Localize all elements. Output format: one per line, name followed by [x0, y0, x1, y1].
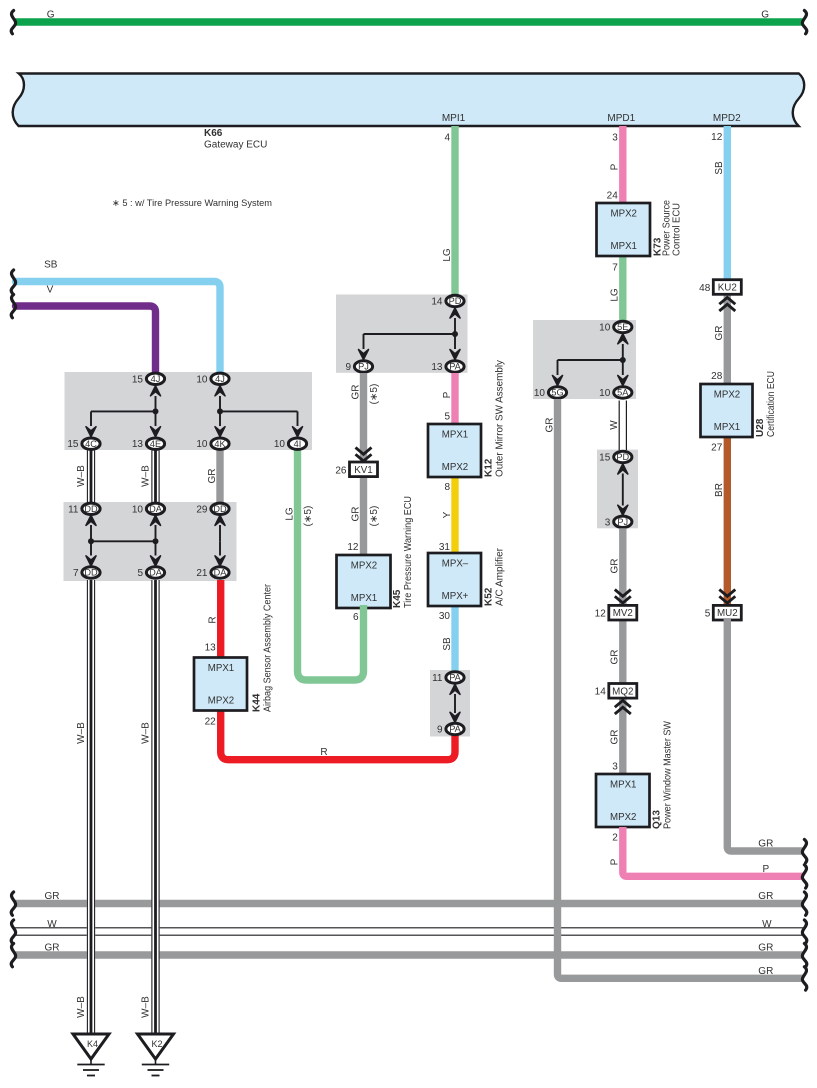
- arrow down to 5G: [553, 360, 563, 386]
- connector 15 4C: [67, 438, 100, 450]
- break symbol GR1 left: [11, 892, 15, 915]
- label GR MV2 wire: [610, 559, 621, 574]
- svg-text:GR: GR: [610, 559, 621, 574]
- svg-text:Y: Y: [442, 511, 453, 518]
- svg-text:MPX2: MPX2: [610, 812, 636, 823]
- wire SB MPD2: [724, 126, 731, 285]
- pin 5 K12: [444, 412, 450, 423]
- svg-text:MPI1: MPI1: [442, 113, 466, 124]
- svg-text:4J: 4J: [215, 374, 225, 384]
- svg-text:PJ: PJ: [358, 362, 369, 372]
- pin 28 U28: [711, 371, 723, 382]
- wire LG K73 to 5E: [619, 250, 626, 321]
- svg-text:DA: DA: [149, 568, 163, 578]
- label Y wire: [442, 511, 453, 518]
- svg-text:MPX2: MPX2: [611, 209, 637, 220]
- label GR KU2 wire: [714, 326, 725, 341]
- wire LG MPI1: [451, 126, 458, 295]
- pin 27 U28: [711, 443, 723, 454]
- arrow down to 4I: [293, 411, 303, 436]
- footnote *5: [112, 198, 272, 209]
- connector 13 4E: [132, 438, 165, 450]
- wire GR horizontal 2: [14, 951, 804, 958]
- connector 7 DD: [73, 567, 100, 579]
- label GR MQ2 wire: [610, 650, 621, 665]
- label G right: [761, 10, 769, 21]
- label SB MPD2 wire: [714, 161, 725, 175]
- connector 14 PD: [431, 295, 464, 307]
- wire W-B 5DA to ground K2: [151, 580, 159, 1034]
- shaded connector area DD/DA: [64, 502, 237, 581]
- svg-text:4I: 4I: [294, 439, 302, 449]
- arrow down to 21 DA: [215, 541, 225, 566]
- pin 4 MPI1: [444, 133, 450, 144]
- svg-text:R: R: [320, 747, 327, 758]
- svg-text:KU2: KU2: [718, 283, 737, 294]
- svg-text:14: 14: [431, 297, 443, 308]
- svg-text:GR: GR: [758, 839, 773, 850]
- label GR Q13 wire: [610, 730, 621, 745]
- svg-text:G: G: [761, 10, 769, 21]
- pin 13 K44: [205, 643, 217, 654]
- svg-text:13: 13: [431, 362, 443, 373]
- svg-text:3: 3: [612, 133, 618, 144]
- svg-text:12: 12: [595, 609, 607, 620]
- label P right: [762, 864, 769, 875]
- break symbol GR2 right: [802, 944, 806, 967]
- svg-text:MPX1: MPX1: [611, 241, 637, 252]
- label W-B 4E wire: [140, 465, 151, 487]
- label GR 4K wire: [207, 469, 218, 484]
- wire V left: [16, 306, 156, 373]
- shaded connector area PD/PJ/PA: [336, 295, 468, 373]
- label SB K52 wire: [442, 637, 453, 651]
- svg-text:GR: GR: [350, 385, 361, 400]
- label GR2 right: [758, 943, 773, 954]
- svg-text:MPX1: MPX1: [714, 422, 740, 433]
- svg-text:13: 13: [205, 643, 217, 654]
- svg-text:GR: GR: [45, 891, 60, 902]
- svg-text:G: G: [47, 10, 55, 21]
- connector 15 PD right: [599, 451, 632, 463]
- chevron below KU2: [719, 298, 735, 312]
- wire link 4J to 4I: [220, 410, 298, 412]
- svg-text:Airbag Sensor Assembly Center: Airbag Sensor Assembly Center: [263, 583, 274, 712]
- ground K4: [73, 1034, 109, 1076]
- arrow up to 10 4J: [215, 386, 225, 412]
- svg-text:K45: K45: [392, 589, 403, 608]
- pin 3 MPD1: [612, 133, 618, 144]
- chevron above MV2: [615, 590, 631, 604]
- svg-text:26: 26: [335, 465, 347, 476]
- svg-text:V: V: [47, 285, 54, 296]
- SW Q13: [596, 720, 674, 829]
- svg-text:5G: 5G: [551, 388, 563, 398]
- label R horizontal wire: [320, 747, 327, 758]
- svg-text:5: 5: [705, 609, 711, 620]
- wire GR 4K to DD: [216, 450, 223, 503]
- svg-text:MPD1: MPD1: [607, 113, 635, 124]
- svg-text:7: 7: [612, 263, 618, 274]
- node junction DD: [88, 538, 94, 544]
- svg-text:GR: GR: [207, 469, 218, 484]
- wire G bus: [14, 18, 804, 25]
- svg-text:(∗5): (∗5): [369, 506, 380, 527]
- wire LG 4I to K45: [298, 450, 364, 680]
- break symbol right G: [802, 11, 806, 34]
- wire W horizontal: [14, 927, 804, 936]
- svg-text:15: 15: [132, 374, 144, 385]
- svg-text:DA: DA: [149, 504, 163, 514]
- label P Q13 wire: [610, 858, 621, 865]
- svg-text:GR: GR: [610, 650, 621, 665]
- svg-text:PD: PD: [449, 296, 462, 306]
- svg-text:W–B: W–B: [76, 722, 87, 744]
- connector 10 5G: [534, 387, 567, 399]
- label GR PJ wire: [350, 385, 361, 400]
- pin 22 K44: [205, 717, 217, 728]
- svg-text:R: R: [208, 616, 219, 623]
- pin 8 K12: [444, 482, 450, 493]
- wire Y K12 to K52: [451, 474, 458, 556]
- arrow up to PD: [450, 308, 460, 334]
- pin 3 Q13: [612, 762, 618, 773]
- break symbol V: [11, 295, 15, 318]
- label GR 5G wire: [544, 418, 555, 433]
- connector KV1: [350, 462, 378, 477]
- svg-text:GR: GR: [758, 891, 773, 902]
- svg-text:MPX2: MPX2: [442, 462, 468, 473]
- label G left: [47, 10, 55, 21]
- svg-text:7: 7: [73, 568, 79, 579]
- svg-text:W: W: [762, 919, 772, 930]
- svg-text:31: 31: [439, 542, 451, 553]
- svg-text:PD: PD: [616, 452, 629, 462]
- node junction 5E: [620, 357, 626, 363]
- svg-text:K44: K44: [252, 693, 263, 712]
- svg-text:MPX+: MPX+: [442, 591, 469, 602]
- shaded connector area 5E/5G/5A: [533, 320, 636, 399]
- arrow up to 11 DD: [86, 515, 96, 541]
- wire link PA to PA: [454, 694, 456, 713]
- arrow down to 7 DD: [86, 541, 96, 566]
- svg-text:5: 5: [444, 412, 450, 423]
- amplifier K52: [428, 547, 506, 606]
- svg-text:GR: GR: [714, 326, 725, 341]
- svg-text:P: P: [610, 163, 621, 170]
- svg-text:28: 28: [711, 371, 723, 382]
- svg-text:MPX2: MPX2: [208, 696, 234, 707]
- connector 10 DA: [132, 503, 165, 515]
- pin 12 MV2: [595, 609, 607, 620]
- break symbol left G: [11, 11, 15, 34]
- arrow up to 11 PA: [450, 684, 460, 694]
- connector 10 5A: [599, 387, 632, 399]
- svg-text:P: P: [610, 858, 621, 865]
- svg-text:10: 10: [274, 439, 286, 450]
- label P PA wire: [442, 391, 453, 398]
- svg-text:4: 4: [444, 133, 450, 144]
- svg-text:K52: K52: [484, 587, 495, 606]
- label (*5) KV1 wire: [369, 506, 380, 527]
- svg-text:MV2: MV2: [613, 608, 633, 619]
- svg-text:(∗5): (∗5): [303, 506, 314, 527]
- connector 11 DD: [68, 503, 100, 515]
- pin 12 K45: [347, 542, 359, 553]
- svg-text:LG: LG: [442, 248, 453, 262]
- svg-text:Control ECU: Control ECU: [672, 203, 683, 256]
- label BR wire: [714, 483, 725, 497]
- label LG 4I wire: [284, 507, 295, 521]
- svg-text:GR: GR: [758, 966, 773, 977]
- connector 10 4I: [274, 438, 307, 450]
- wire link 4J to 4C: [91, 410, 156, 412]
- ECU U28: [701, 371, 778, 437]
- label SB: [44, 260, 58, 271]
- arrow up to 15 4J: [151, 386, 161, 412]
- arrow down to 3 PJ: [618, 505, 628, 515]
- svg-text:10: 10: [534, 388, 546, 399]
- connector KU2: [713, 280, 741, 295]
- svg-text:11: 11: [68, 504, 79, 515]
- pin 48 KU2: [699, 283, 711, 294]
- label GR1 right: [758, 891, 773, 902]
- svg-text:4J: 4J: [151, 374, 161, 384]
- break symbol GR2 left: [11, 944, 15, 967]
- wire link 5E to 5G: [558, 359, 623, 361]
- svg-text:4K: 4K: [214, 439, 226, 449]
- break symbol W left: [11, 920, 15, 943]
- svg-text:K66: K66: [204, 128, 223, 139]
- svg-text:DD: DD: [84, 568, 98, 578]
- svg-text:5: 5: [137, 568, 143, 579]
- svg-text:15: 15: [67, 439, 79, 450]
- svg-text:2: 2: [612, 833, 618, 844]
- ECU K44: [194, 583, 274, 712]
- svg-text:DD: DD: [213, 504, 227, 514]
- svg-text:Power Window Master SW: Power Window Master SW: [663, 720, 674, 829]
- svg-text:14: 14: [595, 687, 607, 698]
- pin 24 K73: [607, 191, 619, 202]
- ground K2: [138, 1034, 174, 1076]
- connector 10 4K: [196, 438, 229, 450]
- break symbol SB: [11, 270, 15, 293]
- wire link PD to PJ: [364, 333, 456, 335]
- wire P Q13 to right: [623, 827, 804, 876]
- svg-text:3: 3: [605, 517, 611, 528]
- svg-text:5E: 5E: [617, 322, 628, 332]
- arrow down to 9 PA: [450, 712, 460, 722]
- wire W-B 7DD to ground K4: [87, 580, 95, 1034]
- wire BR U28 to MU2: [724, 436, 731, 607]
- pin 26 KV1: [335, 465, 347, 476]
- arrow up to 5E: [618, 334, 628, 360]
- arrow up to 15 PD: [618, 464, 628, 474]
- svg-text:8: 8: [444, 482, 450, 493]
- wire W-B 4E to DA: [151, 451, 159, 504]
- svg-text:3: 3: [612, 762, 618, 773]
- svg-text:MPX2: MPX2: [351, 561, 377, 572]
- connector MV2: [609, 605, 637, 620]
- svg-text:W–B: W–B: [140, 465, 151, 487]
- connector 10 5E: [599, 321, 632, 333]
- svg-text:U28: U28: [755, 418, 766, 437]
- wire link PD PJ right: [622, 474, 624, 506]
- arrow down to 5A: [618, 360, 628, 386]
- arrow down to PA: [450, 334, 460, 360]
- arrow down to 4E: [151, 411, 161, 436]
- svg-text:A/C Amplifier: A/C Amplifier: [495, 547, 506, 606]
- svg-text:5A: 5A: [617, 388, 629, 398]
- svg-text:MQ2: MQ2: [612, 686, 633, 697]
- svg-text:10: 10: [196, 439, 208, 450]
- svg-text:27: 27: [711, 443, 723, 454]
- pin 31 K52: [439, 542, 451, 553]
- pin 5 MU2: [705, 609, 711, 620]
- svg-text:10: 10: [196, 374, 208, 385]
- wire GR MU2 to right: [727, 619, 804, 851]
- ECU K45: [337, 496, 415, 608]
- svg-text:Tire Pressure Warning ECU: Tire Pressure Warning ECU: [403, 496, 414, 608]
- svg-text:10: 10: [132, 504, 144, 515]
- arrow down to PJ: [359, 334, 369, 360]
- svg-text:MPX–: MPX–: [442, 559, 469, 570]
- svg-text:W–B: W–B: [140, 996, 151, 1018]
- label GR2 left: [45, 943, 60, 954]
- wire GR PJ to Q13: [619, 528, 626, 774]
- svg-text:12: 12: [711, 132, 723, 143]
- svg-text:DA: DA: [214, 568, 228, 578]
- svg-text:24: 24: [607, 191, 619, 202]
- pin 12 MPD2: [711, 132, 723, 143]
- connector 29 DD: [196, 503, 229, 515]
- svg-text:W–B: W–B: [76, 465, 87, 487]
- svg-text:Certification ECU: Certification ECU: [766, 371, 777, 437]
- connector MQ2: [609, 684, 637, 699]
- svg-text:29: 29: [196, 504, 208, 515]
- label GR MU2 right: [758, 839, 773, 850]
- wire SB left: [16, 282, 221, 373]
- svg-text:MPX2: MPX2: [714, 390, 740, 401]
- chevron below MQ2: [615, 701, 631, 715]
- label LG K73 wire: [610, 288, 621, 302]
- wire W-B 4C to DD: [87, 451, 95, 504]
- label R K44 wire: [208, 616, 219, 623]
- label (*5) 4I wire: [303, 506, 314, 527]
- break symbol GR MU2 right: [802, 840, 806, 863]
- svg-text:Gateway ECU: Gateway ECU: [204, 140, 267, 151]
- svg-text:SB: SB: [44, 260, 58, 271]
- svg-text:PA: PA: [449, 362, 461, 372]
- svg-text:10: 10: [599, 388, 611, 399]
- shaded connector area PA/PA: [430, 670, 470, 737]
- svg-text:MPD2: MPD2: [713, 113, 741, 124]
- svg-text:P: P: [442, 391, 453, 398]
- svg-text:11: 11: [432, 673, 443, 684]
- break symbol GR bottom right: [802, 967, 806, 990]
- svg-text:PJ: PJ: [617, 517, 628, 527]
- wire P MPD1: [619, 126, 626, 208]
- svg-text:GR: GR: [544, 418, 555, 433]
- svg-text:DD: DD: [84, 504, 98, 514]
- label (*5) PJ wire: [369, 384, 380, 405]
- label W-B K4 wire: [76, 722, 87, 744]
- arrow up to 10 DA: [151, 515, 161, 541]
- label W-B K2 wire: [140, 722, 151, 744]
- svg-text:15: 15: [599, 453, 611, 464]
- svg-text:30: 30: [439, 611, 451, 622]
- wire link DD to DA: [91, 540, 156, 542]
- label P MPD1 wire: [610, 163, 621, 170]
- wire GR horizontal 1: [14, 900, 804, 907]
- shaded connector area PD/PJ right: [597, 450, 638, 529]
- chevron above MU2: [719, 590, 735, 604]
- svg-text:W: W: [609, 420, 620, 430]
- label W 5A wire: [609, 420, 620, 430]
- svg-text:(∗5): (∗5): [369, 384, 380, 405]
- label W left: [47, 919, 57, 930]
- svg-text:MPX1: MPX1: [610, 780, 636, 791]
- svg-text:LG: LG: [284, 507, 295, 521]
- connector 9 PJ: [345, 361, 372, 373]
- label GR KV1 wire: [350, 507, 361, 522]
- connector 9 PA: [437, 723, 464, 735]
- connector 15 4J: [132, 373, 165, 385]
- break symbol GR1 right: [802, 892, 806, 915]
- svg-text:∗ 5 : w/ Tire Pressure Warning: ∗ 5 : w/ Tire Pressure Warning System: [112, 198, 272, 209]
- break symbol W right: [802, 920, 806, 943]
- svg-text:MPX1: MPX1: [351, 593, 377, 604]
- label W right: [762, 919, 772, 930]
- svg-text:P: P: [762, 864, 769, 875]
- wire SB K52 to PA: [451, 604, 458, 672]
- connector 3 PJ: [605, 516, 632, 528]
- ECU K73: [597, 200, 683, 256]
- wire GR PJ to K45: [360, 373, 367, 555]
- label GR bottom right: [758, 966, 773, 977]
- node junction 4J right: [217, 408, 223, 414]
- svg-text:KV1: KV1: [354, 465, 373, 476]
- svg-text:PA: PA: [449, 673, 461, 683]
- label GR1 left: [45, 891, 60, 902]
- wire GR 5G to bottom: [558, 399, 805, 978]
- wire R 21DA to K44 to PA: [221, 580, 455, 760]
- svg-text:SB: SB: [442, 637, 453, 651]
- svg-text:K4: K4: [87, 1039, 98, 1049]
- svg-text:4C: 4C: [85, 439, 97, 449]
- svg-text:K12: K12: [484, 458, 495, 477]
- connector 13 PA: [431, 361, 464, 373]
- wire GR KU2 to U28: [724, 293, 731, 385]
- label W-B 4C wire: [76, 465, 87, 487]
- svg-text:W: W: [47, 919, 57, 930]
- label W-B K4 wire lower: [76, 996, 87, 1018]
- label W-B K2 wire lower: [140, 996, 151, 1018]
- arrow up to 29 DD: [215, 515, 225, 541]
- connector MU2: [713, 605, 741, 620]
- connector 21 DA: [196, 567, 229, 579]
- svg-text:Q13: Q13: [652, 810, 663, 829]
- svg-text:GR: GR: [45, 943, 60, 954]
- arrow down to 4K: [215, 411, 225, 436]
- pin 14 MQ2: [595, 687, 607, 698]
- pin 30 K52: [439, 611, 451, 622]
- shaded connector area 4J/4C/4E/4K/4I: [65, 372, 313, 450]
- svg-text:MPX1: MPX1: [208, 663, 234, 674]
- SW K12: [428, 360, 506, 477]
- wire P PA to K12: [451, 373, 458, 426]
- connector 11 PA: [432, 672, 464, 684]
